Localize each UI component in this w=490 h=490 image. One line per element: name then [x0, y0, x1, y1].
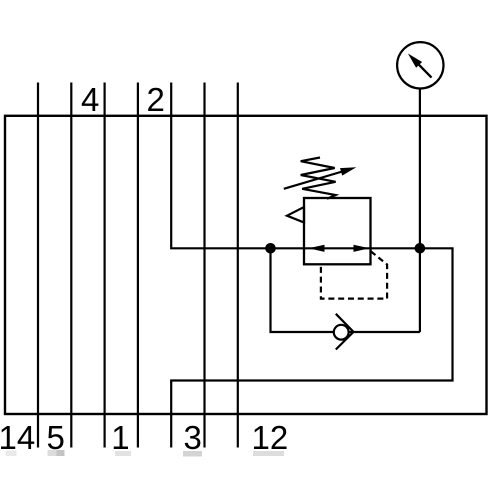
svg-text:4: 4 [81, 81, 99, 118]
svg-text:2: 2 [147, 81, 165, 118]
svg-text:1: 1 [111, 419, 129, 456]
svg-text:14: 14 [0, 419, 35, 456]
svg-text:3: 3 [184, 419, 202, 456]
svg-text:12: 12 [252, 419, 289, 456]
